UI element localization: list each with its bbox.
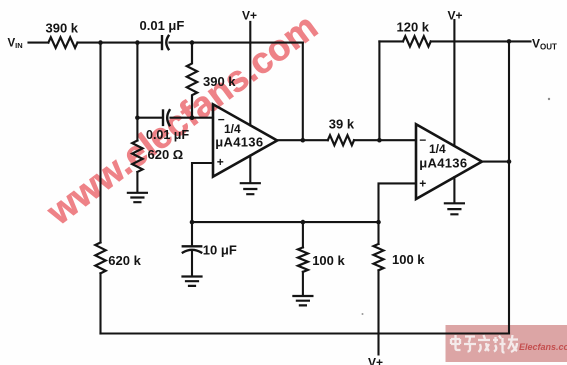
- resistor 100k left (vertical): [298, 247, 308, 272]
- svg-text:+: +: [419, 177, 426, 191]
- svg-text:www.elecfans.com: www.elecfans.com: [39, 6, 325, 233]
- wire V+ supply opamp1: [249, 22, 251, 125]
- wire opamp1 noninverting input: [192, 163, 213, 222]
- ground 10uF: [183, 277, 202, 286]
- node junction Vout: [507, 39, 512, 44]
- wire vertical corner down to opamp1 output: [302, 43, 304, 141]
- resistor 620 ohm (vertical): [132, 141, 142, 172]
- wire cap2 node to cap2 left plate: [137, 117, 161, 119]
- watermark www.elecfans.com: [39, 6, 325, 233]
- ground 620ohm: [128, 193, 147, 202]
- scan speck bottom middle: [362, 313, 364, 315]
- wire cap2 right to opamp1 inverting input: [171, 117, 214, 119]
- wire 100k left to ground: [302, 272, 304, 295]
- node junction opamp2 output: [507, 159, 512, 164]
- wire bottom rail: [101, 332, 510, 334]
- svg-text:39 k: 39 k: [329, 116, 355, 131]
- wire 39k to opamp2 inverting input: [354, 139, 416, 141]
- svg-text:−: −: [419, 133, 426, 147]
- node junction D (39k / feedback): [377, 138, 382, 143]
- node junction B: [135, 40, 140, 45]
- svg-text:0.01 μF: 0.01 μF: [146, 128, 189, 142]
- wire top left: node A to cap1 left: [78, 42, 161, 44]
- wire 100k right top lead: [377, 222, 379, 244]
- svg-text:VIN: VIN: [8, 38, 23, 51]
- wire opamp2 negative supply to ground: [453, 177, 455, 201]
- node junction B2 (cap2/620ohm): [135, 115, 140, 120]
- resistor 390k input (horizontal): [48, 37, 77, 48]
- svg-text:0.01 μF: 0.01 μF: [140, 18, 185, 33]
- svg-text:620 k: 620 k: [108, 253, 141, 268]
- node junction C (390k top): [190, 40, 195, 45]
- scan speck top right: [548, 98, 550, 100]
- svg-text:Elecfans.com: Elecfans.com: [519, 342, 567, 352]
- wire 120k left lead: [379, 40, 403, 42]
- wire 620ohm to ground: [136, 172, 138, 192]
- logo chinese char you: [508, 335, 518, 352]
- capacitor 0.01uF lower: left plate: [162, 111, 164, 125]
- wire 620k to bottom rail: [99, 273, 101, 333]
- wire cap2 node down to 620ohm: [136, 118, 138, 141]
- resistor 620k (vertical): [95, 243, 105, 274]
- capacitor 10uF top plate: [183, 245, 201, 247]
- svg-text:V+: V+: [242, 8, 257, 22]
- svg-text:VOUT: VOUT: [532, 37, 557, 52]
- wire Vout lead: [509, 40, 531, 42]
- ground opamp2: [445, 203, 464, 214]
- svg-text:100 k: 100 k: [312, 253, 345, 268]
- svg-text:100 k: 100 k: [392, 252, 425, 267]
- wire Vin lead: [29, 42, 49, 44]
- node junction opamp1 output: [301, 138, 306, 143]
- resistor 100k right (vertical): [374, 244, 384, 270]
- node junction A: [98, 40, 103, 45]
- svg-text:+: +: [217, 155, 224, 169]
- wire opamp1 negative supply to ground: [249, 156, 251, 182]
- logo chinese char shao: [493, 336, 506, 353]
- wire 100k right down to V+ bottom: [377, 270, 379, 354]
- capacitor 10uF curved bottom plate: [183, 250, 201, 253]
- svg-text:620 Ω: 620 Ω: [148, 147, 184, 162]
- capacitor 0.01uF lower: right curved plate: [167, 110, 169, 125]
- wire 10uF top lead: [191, 222, 193, 245]
- node junction 10uF: [190, 220, 195, 225]
- wire V+ supply opamp2: [453, 20, 455, 146]
- svg-text:μA4136: μA4136: [215, 134, 263, 149]
- wire opamp1 output to 39k: [277, 139, 328, 141]
- op-amp U2 triangle: [416, 124, 482, 199]
- ground opamp1: [241, 183, 260, 194]
- svg-text:V+: V+: [448, 8, 463, 22]
- resistor 390k feedback (vertical): [187, 43, 197, 118]
- logo box elecfans bottom right: [446, 325, 567, 362]
- svg-text:−: −: [218, 112, 225, 126]
- logo chinese char zi: [464, 337, 476, 352]
- wire 100k left top lead: [302, 222, 304, 247]
- capacitor 0.01uF top: right curved plate: [166, 36, 168, 49]
- svg-text:μA4136: μA4136: [419, 156, 467, 171]
- wire cap1 right to corner over opamp1: [170, 42, 303, 44]
- svg-text:V+: V+: [368, 356, 383, 365]
- wire 120k right lead to Vout column: [431, 40, 509, 42]
- svg-text:10 μF: 10 μF: [203, 242, 237, 257]
- node junction 100k left: [301, 220, 306, 225]
- ground 100k left: [293, 296, 312, 305]
- op-amp U1 triangle: [213, 104, 277, 176]
- wire node B vertical down to cap2 node: [136, 43, 138, 118]
- resistor 39k (horizontal): [328, 135, 354, 145]
- wire right vertical Vout column: [508, 41, 510, 333]
- wire feedback vertical from 120k down to node D: [378, 41, 380, 140]
- logo chinese char dian: [451, 335, 461, 350]
- resistor 120k (horizontal): [403, 36, 431, 46]
- logo chinese char fa: [478, 335, 490, 352]
- wire node A vertical down to 620k: [99, 43, 101, 243]
- node junction 100k right: [376, 220, 381, 225]
- wire opamp2 noninverting input: [379, 183, 417, 222]
- capacitor 0.01uF top: left plate: [161, 36, 163, 49]
- svg-text:120 k: 120 k: [397, 19, 430, 34]
- node junction C2 (390k bottom / inv input): [190, 115, 195, 120]
- svg-text:390 k: 390 k: [46, 21, 79, 36]
- wire opamp2 output: [482, 161, 509, 163]
- svg-text:390 k: 390 k: [203, 74, 236, 89]
- wire 10uF to ground: [191, 252, 193, 275]
- svg-text:1/4: 1/4: [429, 142, 446, 156]
- wire bias line y=222: [192, 221, 379, 223]
